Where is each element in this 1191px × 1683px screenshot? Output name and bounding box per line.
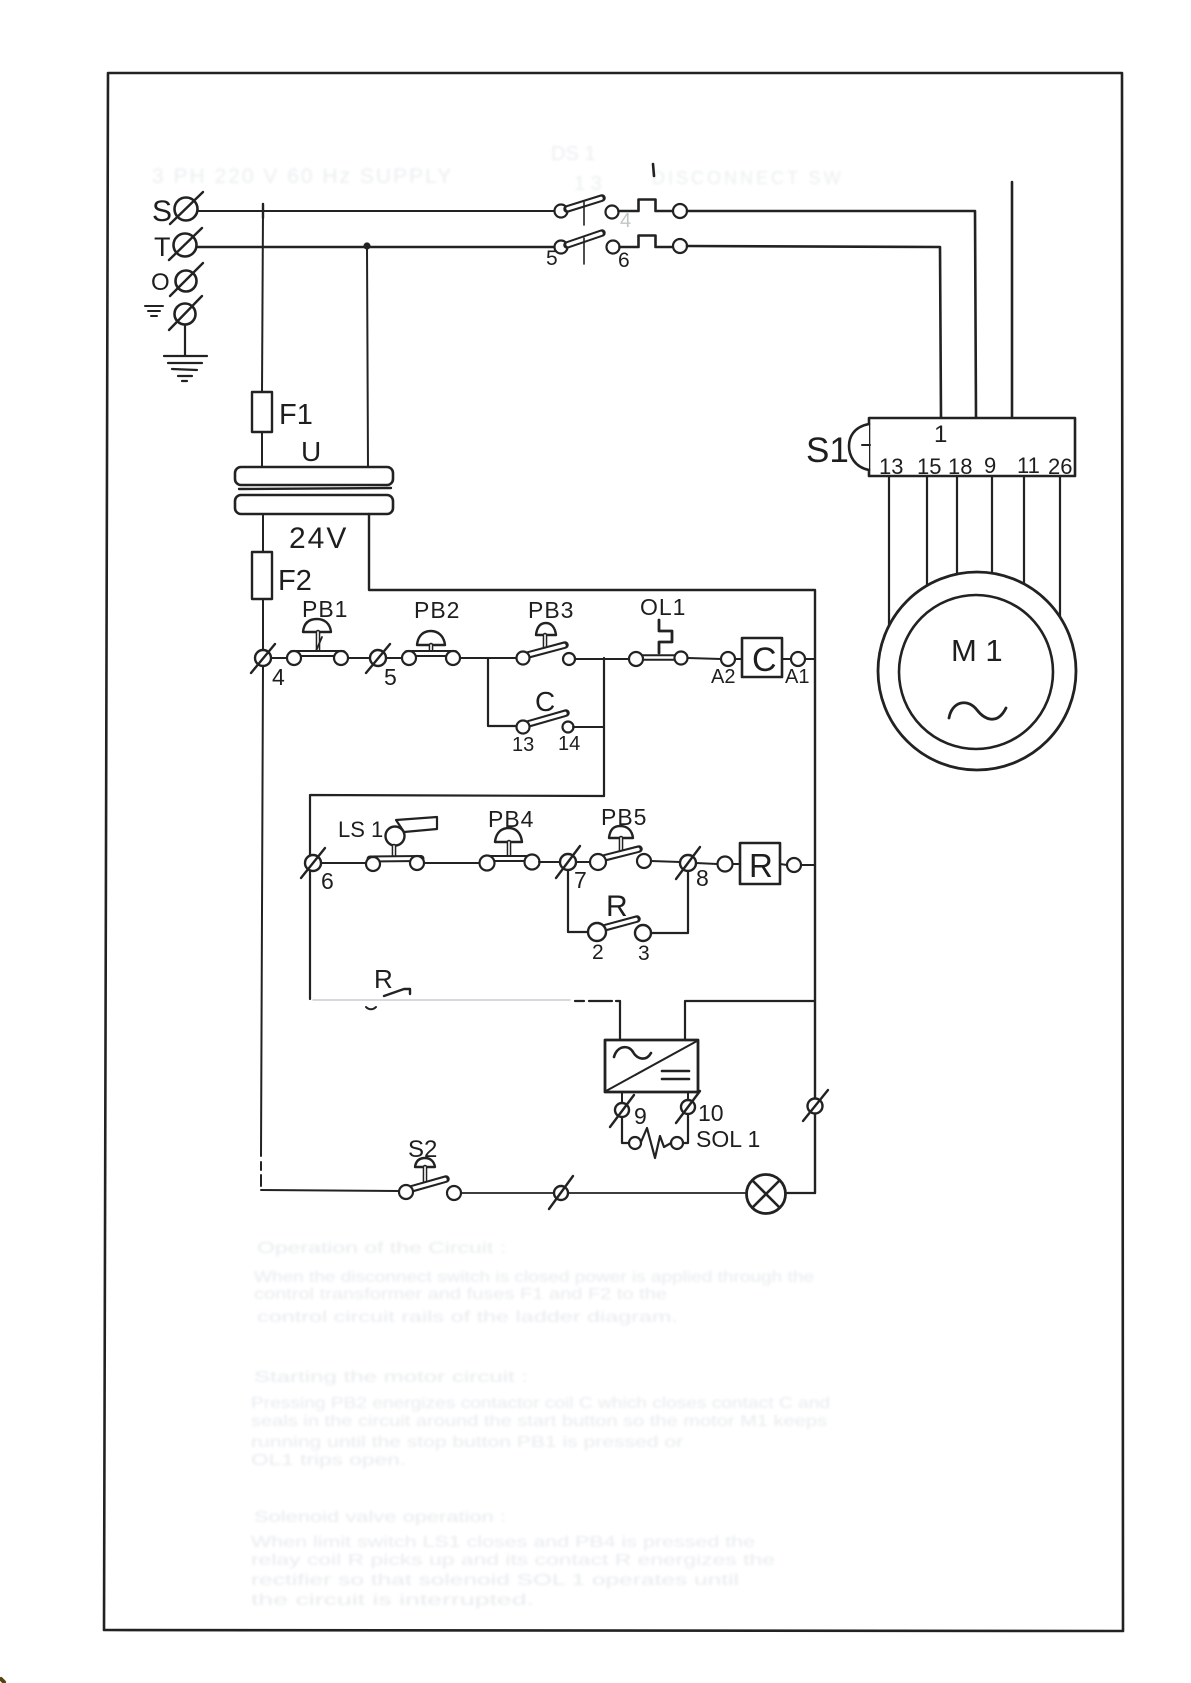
- svg-text:13: 13: [879, 454, 903, 479]
- node junction on S wire: [262, 204, 264, 218]
- svg-text:PB2: PB2: [414, 597, 460, 623]
- faint wire to rectifier: [313, 999, 570, 1001]
- wires S1 to motor: [888, 476, 890, 628]
- svg-text:SOL 1: SOL 1: [696, 1126, 760, 1152]
- svg-text:4: 4: [272, 664, 285, 690]
- lamp: [747, 1175, 786, 1214]
- terminal on lamp wire: [549, 1176, 573, 1209]
- svg-text:F2: F2: [278, 565, 312, 597]
- S1 pin numbers: [879, 453, 1072, 479]
- svg-text:10: 10: [698, 1100, 724, 1126]
- wire S phase: [198, 210, 554, 212]
- svg-text:R: R: [606, 890, 628, 923]
- svg-text:11: 11: [1017, 453, 1040, 478]
- svg-text:S: S: [152, 195, 172, 228]
- wire T drop to transformer: [367, 247, 368, 468]
- wire: [688, 658, 721, 659]
- terminal on right rail: [803, 1090, 828, 1121]
- svg-text:relay coil R picks up and its: relay coil R picks up and its contact R …: [251, 1552, 775, 1569]
- svg-text:2: 2: [592, 941, 604, 964]
- svg-text:seals in the circuit around th: seals in the circuit around the start bu…: [251, 1413, 827, 1430]
- svg-text:8: 8: [696, 865, 709, 891]
- contactor coil C: [711, 638, 815, 688]
- terminal 6: [301, 848, 334, 894]
- auxiliary contact C 13-14: [512, 686, 604, 756]
- wire lamp to rail: [787, 1192, 815, 1194]
- pushbutton PB2: [402, 597, 460, 665]
- wire rung2 feeder: [310, 795, 604, 999]
- relay coil R: [696, 843, 815, 884]
- wire F2 to rung 1: [262, 599, 264, 650]
- svg-text:Starting the motor circuit :: Starting the motor circuit :: [254, 1369, 528, 1386]
- wire: [460, 657, 517, 659]
- wire: [386, 657, 402, 659]
- svg-text:1 3: 1 3: [574, 173, 602, 195]
- svg-text:When limit switch LS1 closes a: When limit switch LS1 closes and PB4 is …: [251, 1534, 755, 1551]
- node junction dot on T wire: [363, 242, 370, 249]
- wire: [424, 862, 480, 864]
- transformer primary bar: [235, 467, 393, 485]
- svg-text:6: 6: [618, 249, 630, 272]
- motor M1: [878, 572, 1076, 770]
- svg-text:13: 13: [512, 734, 534, 756]
- svg-text:the circuit is interrupted.: the circuit is interrupted.: [251, 1592, 534, 1609]
- switch S2: [399, 1136, 461, 1200]
- wire: [461, 1192, 554, 1194]
- svg-text:F1: F1: [279, 399, 313, 431]
- speck bottom-left margin: [1, 1679, 4, 1682]
- svg-text:5: 5: [384, 664, 397, 690]
- relay contact R 2-3 branch: [568, 870, 688, 965]
- svg-text:26: 26: [1048, 454, 1072, 479]
- terminal 4: [251, 644, 285, 690]
- pushbutton PB5: [576, 804, 680, 870]
- svg-text:R: R: [749, 847, 773, 884]
- rectifier: [605, 1040, 698, 1092]
- svg-text:3 PH 220 V 60 Hz SUPPLY: 3 PH 220 V 60 Hz SUPPLY: [152, 165, 453, 188]
- svg-text:9: 9: [984, 453, 996, 478]
- svg-text:DS 1: DS 1: [551, 143, 595, 165]
- svg-text:O: O: [151, 269, 170, 296]
- wire: [271, 657, 287, 659]
- limit switch LS1: [338, 817, 437, 871]
- svg-text:OL1: OL1: [640, 594, 686, 620]
- wire dashes to rectifier: [575, 1000, 620, 1002]
- wire F1 to transformer: [261, 432, 263, 468]
- fuse F2: [252, 552, 312, 599]
- svg-text:24V: 24V: [289, 522, 348, 555]
- faded paragraph block 3: [251, 1509, 775, 1609]
- svg-text:LS 1: LS 1: [338, 817, 383, 842]
- svg-text:5: 5: [546, 247, 558, 270]
- bottom rung wire: [261, 1190, 399, 1191]
- wire: [568, 1192, 745, 1194]
- svg-text:running until the stop button: running until the stop button PB1 is pre…: [251, 1434, 684, 1451]
- svg-text:4: 4: [620, 210, 631, 232]
- svg-text:PB1: PB1: [302, 596, 348, 622]
- terminal T: [154, 228, 202, 262]
- disconnect switch pole 2: [546, 233, 630, 272]
- pushbutton PB3: [517, 597, 576, 665]
- svg-text:C: C: [752, 641, 777, 679]
- faded paragraph block 1: [254, 1240, 814, 1326]
- svg-text:14: 14: [558, 733, 580, 755]
- terminal PE: [145, 296, 202, 330]
- pushbutton PB4: [480, 806, 540, 871]
- svg-text:S1: S1: [806, 431, 849, 470]
- svg-text:When the disconnect switch is: When the disconnect switch is closed pow…: [254, 1269, 814, 1286]
- ground: [164, 325, 207, 381]
- wire: [539, 861, 560, 863]
- svg-text:6: 6: [321, 868, 334, 894]
- svg-text:PB3: PB3: [528, 597, 574, 623]
- svg-text:rectifier so that solenoid SOL: rectifier so that solenoid SOL 1 operate…: [251, 1572, 739, 1589]
- svg-text:DISCONNECT SW: DISCONNECT SW: [652, 168, 844, 188]
- disconnect switch pole 1: [555, 198, 619, 225]
- svg-text:9: 9: [634, 1103, 647, 1129]
- overload heater pole 1: [619, 200, 688, 219]
- svg-text:A2: A2: [711, 666, 735, 688]
- svg-text:Pressing PB2 energizes contact: Pressing PB2 energizes contactor coil C …: [251, 1395, 830, 1412]
- wire: [575, 658, 629, 660]
- pushbutton PB1: [287, 596, 348, 665]
- solenoid SOL1: [622, 1114, 760, 1158]
- svg-text:A1: A1: [785, 666, 809, 688]
- svg-text:U: U: [301, 436, 321, 467]
- transformer secondary bar: [235, 495, 393, 514]
- faded heading over supply terminals: [152, 143, 844, 195]
- svg-text:C: C: [535, 686, 555, 717]
- overload heater pole 2: [620, 236, 688, 254]
- relay NC mark R: [366, 964, 410, 1009]
- terminal 9: [610, 1092, 647, 1129]
- left rail: [261, 666, 263, 1186]
- wire secondary left to F2: [262, 514, 264, 552]
- wire right rail to rectifier: [685, 1001, 815, 1040]
- svg-text:M 1: M 1: [951, 633, 1003, 668]
- wire: [321, 862, 366, 864]
- svg-text:1: 1: [934, 421, 947, 448]
- wire: [348, 657, 370, 659]
- wire third phase to S1: [1011, 182, 1014, 418]
- wire S to S1: [687, 211, 976, 418]
- svg-text:7: 7: [574, 867, 587, 893]
- transformer core line: [239, 488, 391, 489]
- wire T phase: [197, 246, 554, 248]
- svg-text:control transformer and fuses: control transformer and fuses F1 and F2 …: [254, 1286, 667, 1303]
- terminal 10: [676, 1091, 724, 1126]
- wire T to S1: [687, 246, 941, 418]
- terminal 7: [556, 846, 587, 893]
- wire S drop to F1: [262, 211, 263, 392]
- terminal O: [151, 263, 203, 296]
- terminal S: [152, 192, 203, 228]
- stray tick mark: [653, 164, 654, 176]
- svg-text:control circuit rails of the l: control circuit rails of the ladder diag…: [257, 1309, 678, 1326]
- svg-text:15: 15: [917, 454, 941, 479]
- svg-text:OL1 trips open.: OL1 trips open.: [251, 1452, 406, 1469]
- terminal 5: [366, 644, 397, 690]
- terminal 8: [676, 847, 709, 891]
- faded paragraph block 2: [251, 1369, 830, 1469]
- wire branch down right of C contact: [603, 658, 605, 796]
- fuse F1: [252, 392, 313, 432]
- svg-text:T: T: [154, 232, 171, 262]
- svg-text:18: 18: [948, 454, 972, 479]
- svg-text:Solenoid valve operation :: Solenoid valve operation :: [254, 1509, 506, 1526]
- svg-text:3: 3: [638, 942, 650, 965]
- wire branch down left of C contact: [488, 658, 517, 726]
- border frame: [104, 73, 1123, 1631]
- wire secondary right to control rail: [369, 514, 815, 1193]
- svg-text:R: R: [374, 964, 393, 994]
- overload contact OL1: [629, 594, 688, 666]
- switch S1 terminal block: [806, 418, 1075, 476]
- svg-text:Operation of the Circuit :: Operation of the Circuit :: [257, 1240, 506, 1257]
